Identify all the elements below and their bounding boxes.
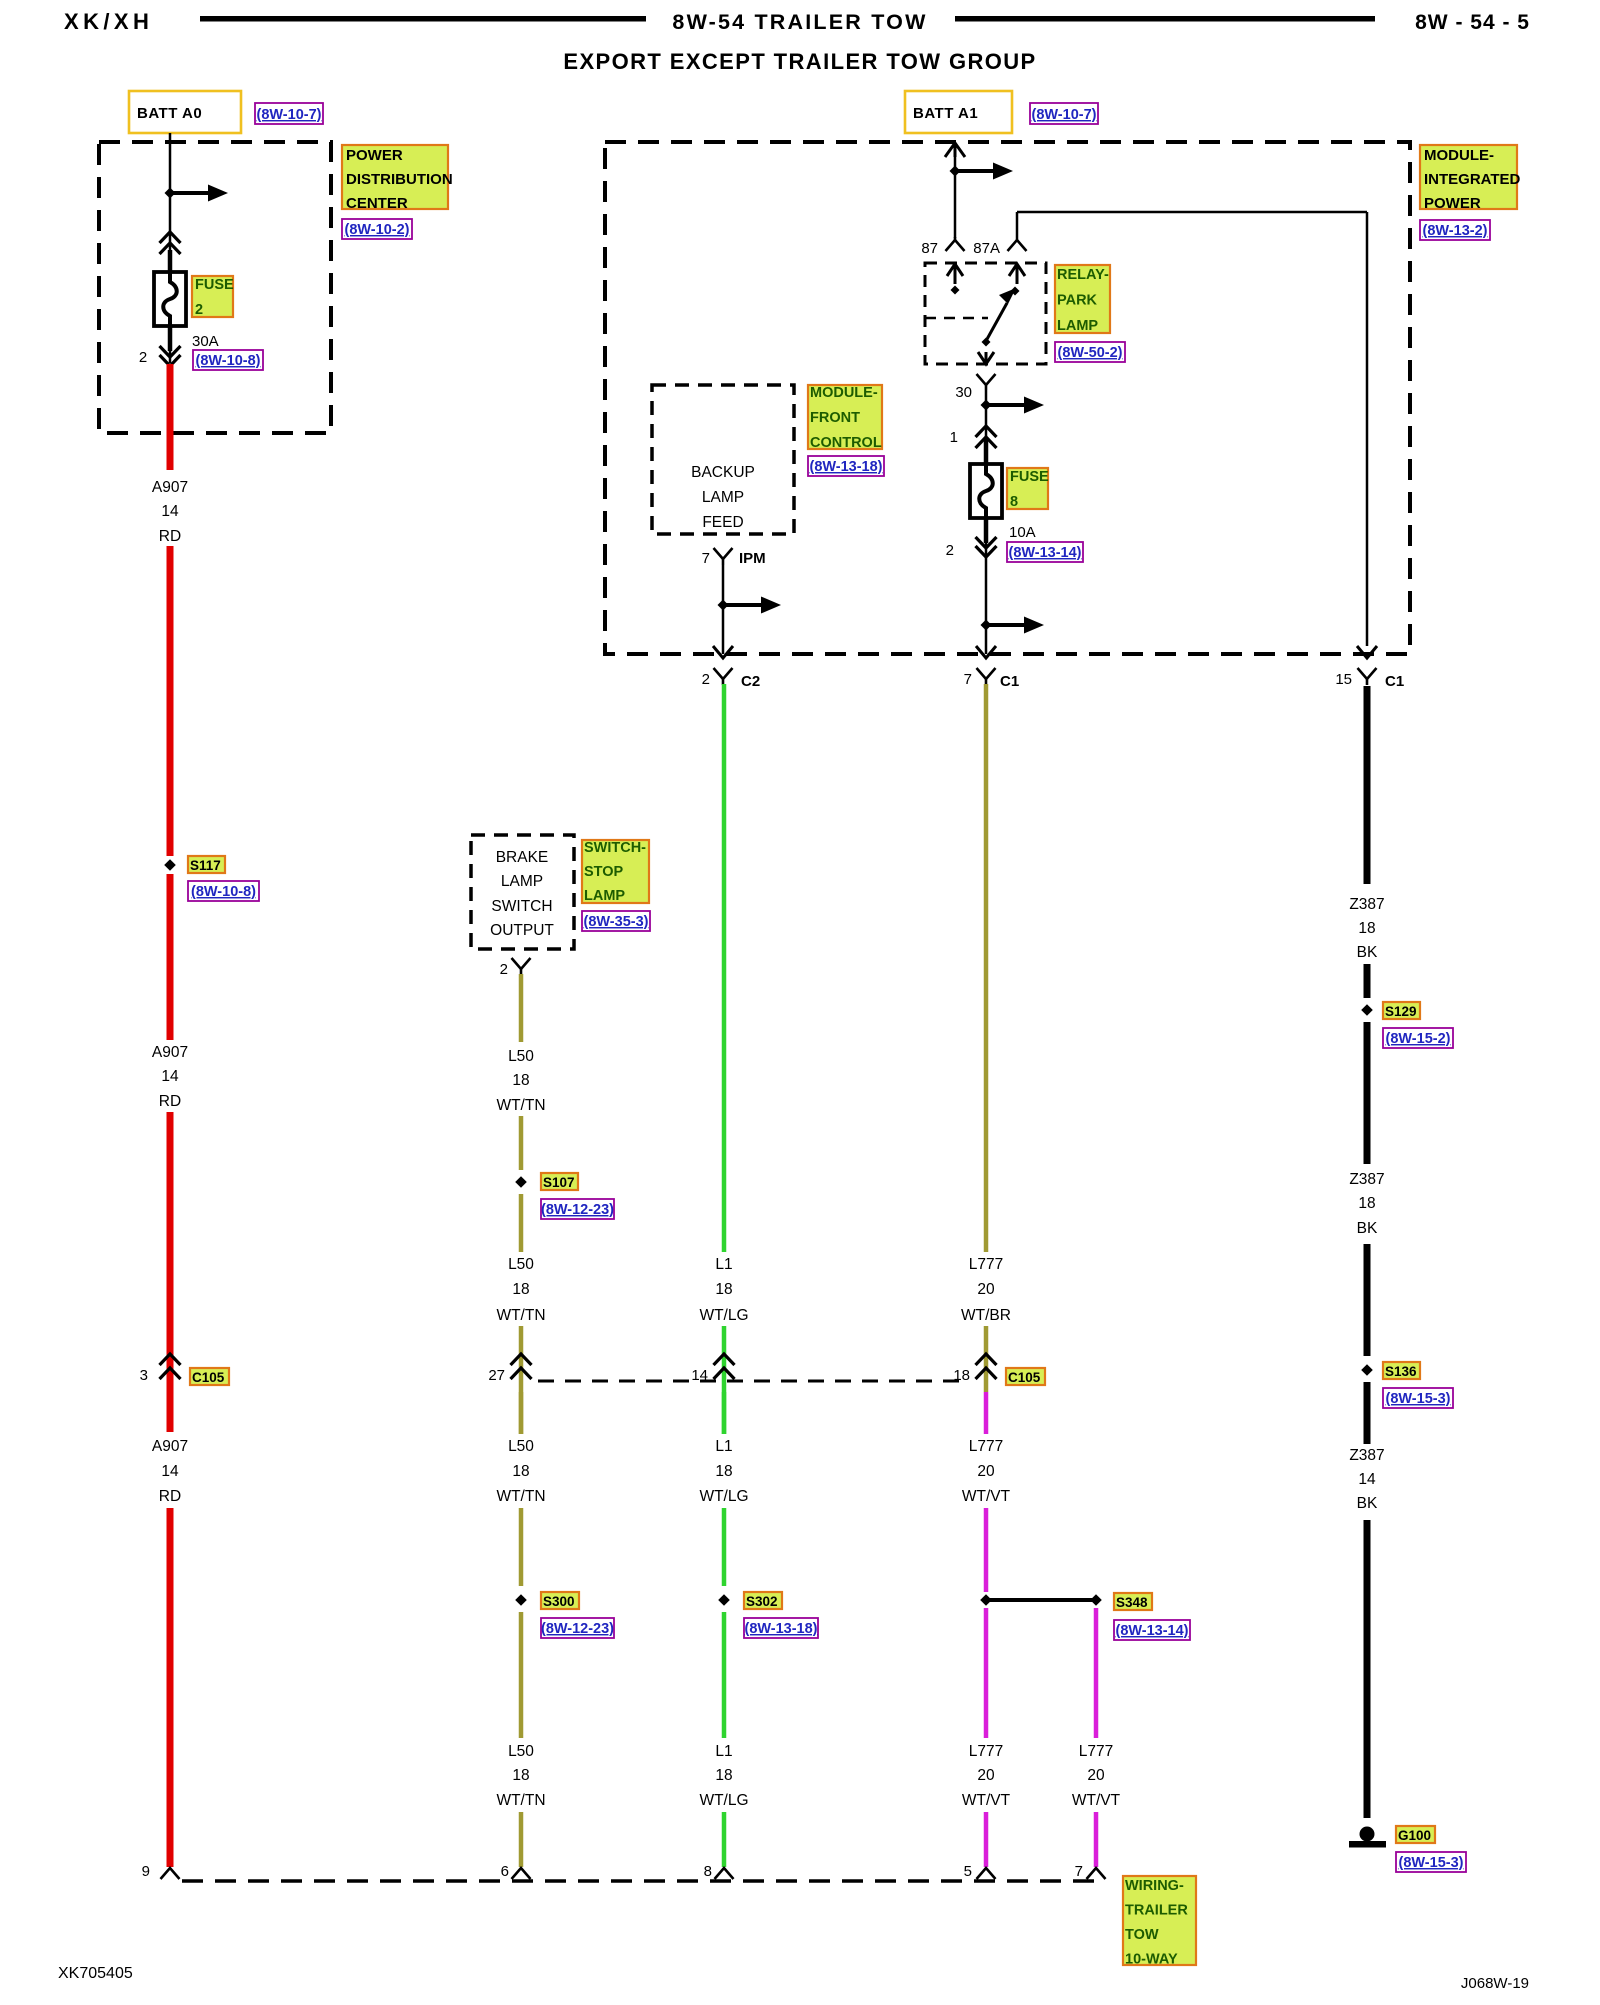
wire L777 segment 5 <box>984 1608 989 1738</box>
wire L777 WT/BR segment 1 <box>984 684 989 1252</box>
connector C105 chevrons on A907 <box>160 1354 181 1379</box>
svg-text:BATT A1: BATT A1 <box>913 105 978 122</box>
svg-text:C2: C2 <box>741 673 760 690</box>
label MODULE-INTEGRATED POWER <box>1420 145 1521 212</box>
value 30A <box>192 333 219 350</box>
pin 7 at trailer tow connector <box>1075 1863 1083 1880</box>
wire L50 segment 5 <box>519 1392 524 1434</box>
svg-text:7: 7 <box>964 671 972 688</box>
svg-text:WT/TN: WT/TN <box>496 1488 545 1505</box>
svg-text:18: 18 <box>1358 920 1375 937</box>
wire Z387 segment 5 <box>1364 1382 1371 1444</box>
connector fork pin 9 <box>161 1868 180 1879</box>
svg-text:L777: L777 <box>969 1256 1003 1273</box>
svg-text:L50: L50 <box>508 1743 534 1760</box>
connector fork at pin 30 <box>977 374 996 390</box>
wire L777 segment 4 <box>984 1508 989 1592</box>
wire label L50 18 WT/TN (4) <box>496 1743 545 1809</box>
label S107 <box>541 1173 578 1190</box>
svg-text:(8W-10-2): (8W-10-2) <box>345 222 410 238</box>
svg-text:WIRING-: WIRING- <box>1125 1878 1184 1894</box>
power distribution center dashed box <box>99 142 331 433</box>
svg-text:INTEGRATED: INTEGRATED <box>1424 171 1521 188</box>
arrow into module edge at C2-2 <box>713 646 733 658</box>
wire label L777 20 WT/VT branch <box>1072 1743 1121 1809</box>
svg-text:18: 18 <box>512 1463 529 1480</box>
connector chevrons above fuse 2 <box>160 232 181 254</box>
connector name C2 <box>741 673 760 690</box>
connector C105 chevrons on L1 <box>714 1354 735 1379</box>
svg-text:BK: BK <box>1357 944 1378 961</box>
svg-text:(8W-10-7): (8W-10-7) <box>1032 107 1097 123</box>
pin 2 at brake lamp switch <box>500 961 508 978</box>
svg-text:BATT A0: BATT A0 <box>137 105 202 122</box>
wire label Z387 18 BK (2) <box>1349 1171 1384 1237</box>
svg-text:LAMP: LAMP <box>501 873 543 890</box>
wire label Z387 18 BK (1) <box>1349 896 1384 961</box>
svg-text:L777: L777 <box>1079 1743 1113 1760</box>
link 8W-12-23 at S300 <box>541 1618 614 1638</box>
svg-text:S348: S348 <box>1116 1595 1148 1610</box>
wire relay to fuse 8 <box>985 390 988 464</box>
svg-text:(8W-13-2): (8W-13-2) <box>1423 223 1488 239</box>
label S136 <box>1383 1362 1420 1379</box>
battery feed BATT A1 box <box>905 91 1012 133</box>
svg-text:PARK: PARK <box>1057 293 1098 309</box>
svg-text:8: 8 <box>1010 494 1018 510</box>
pin 7 at IPM <box>702 550 710 567</box>
wire label L777 20 WT/BR <box>961 1256 1011 1324</box>
connector fork brake lamp pin 2 <box>512 958 531 975</box>
svg-text:(8W-13-14): (8W-13-14) <box>1115 1623 1188 1639</box>
svg-text:L1: L1 <box>715 1743 732 1760</box>
connector fork at pin 87 <box>946 237 965 251</box>
wire L1 WT/LG segment 1 <box>722 684 727 1252</box>
wire L777 segment 2 <box>984 1326 989 1392</box>
svg-text:BK: BK <box>1357 1220 1378 1237</box>
svg-text:L777: L777 <box>969 1438 1003 1455</box>
svg-text:10-WAY: 10-WAY <box>1125 1952 1178 1968</box>
label MODULE-FRONT CONTROL <box>808 385 882 451</box>
fuse F2 symbol <box>154 250 186 351</box>
wire label L1 18 WT/LG (2) <box>699 1438 748 1505</box>
svg-text:30: 30 <box>955 384 972 401</box>
connector name IPM <box>739 550 766 567</box>
wire L50 segment 7 <box>519 1612 524 1738</box>
wire Z387 segment 3 <box>1364 1022 1371 1164</box>
svg-text:FRONT: FRONT <box>810 410 860 426</box>
wire A907 RD segment 3 <box>167 874 174 1040</box>
wire Z387 segment 6 <box>1364 1520 1371 1818</box>
link 8W-13-14 at fuse 8 <box>1007 542 1083 562</box>
relay pin 30 arrow <box>978 352 994 364</box>
label FUSE 2 <box>192 276 234 318</box>
wire label L50 18 WT/TN (1) <box>496 1048 545 1114</box>
svg-text:C1: C1 <box>1000 673 1019 690</box>
svg-text:(8W-10-8): (8W-10-8) <box>191 884 256 900</box>
wire A907 RD segment 4 <box>167 1112 174 1432</box>
wire label L1 18 WT/LG (1) <box>699 1256 748 1324</box>
label FUSE 8 <box>1007 468 1049 510</box>
link 8W-15-3 at S136 <box>1383 1388 1453 1408</box>
svg-text:L1: L1 <box>715 1256 732 1273</box>
wire BATT A0 to fuse 2 <box>169 133 172 272</box>
relay coil dashed line <box>925 317 988 320</box>
svg-text:S117: S117 <box>190 858 221 873</box>
wire L777 WT/VT segment 3 <box>984 1392 989 1434</box>
svg-text:BACKUP: BACKUP <box>691 464 755 481</box>
connector fork C2 pin 2 <box>714 668 733 685</box>
svg-text:BRAKE: BRAKE <box>496 849 549 866</box>
link 8W-10-8 at PDC <box>193 350 263 370</box>
svg-text:RD: RD <box>159 528 181 545</box>
wire label L1 18 WT/LG (3) <box>699 1743 748 1809</box>
link 8W-13-14 at S348 <box>1114 1620 1190 1640</box>
label WIRING-TRAILER TOW 10-WAY <box>1123 1876 1196 1968</box>
link 8W-13-18 <box>808 456 884 476</box>
svg-text:20: 20 <box>977 1463 995 1480</box>
junction below BATT A1 with takeoff arrow <box>950 163 1014 180</box>
splice S129 <box>1361 1004 1373 1016</box>
svg-text:5: 5 <box>964 1863 972 1880</box>
connector C105 dashed line <box>538 1380 968 1383</box>
svg-text:7: 7 <box>1075 1863 1083 1880</box>
splice S302 <box>718 1594 730 1606</box>
wire L50 segment 4 <box>519 1326 524 1434</box>
svg-text:14: 14 <box>161 1068 179 1085</box>
ground G100 symbol <box>1349 1827 1386 1848</box>
svg-text:J068W-19: J068W-19 <box>1461 1975 1529 1992</box>
label SWITCH-STOP LAMP <box>582 840 649 904</box>
svg-text:A907: A907 <box>152 479 188 496</box>
svg-text:FUSE: FUSE <box>195 277 234 293</box>
svg-text:9: 9 <box>142 1863 150 1880</box>
wire L777 branch segment 1 <box>1094 1608 1099 1738</box>
wire L1 segment 3 <box>722 1392 727 1434</box>
label C105 right <box>1006 1368 1045 1385</box>
pin 9 at trailer tow connector <box>142 1863 150 1880</box>
connector name C1 <box>1000 673 1019 690</box>
svg-text:20: 20 <box>1087 1767 1105 1784</box>
wire label L777 20 WT/VT (1) <box>962 1438 1011 1505</box>
svg-text:14: 14 <box>161 1463 179 1480</box>
svg-text:18: 18 <box>512 1072 529 1089</box>
svg-text:30A: 30A <box>192 333 219 350</box>
svg-text:(8W-15-3): (8W-15-3) <box>1399 1855 1464 1871</box>
svg-text:TRAILER: TRAILER <box>1125 1903 1188 1919</box>
wire L1 segment 4 <box>722 1508 727 1586</box>
label G100 <box>1396 1826 1435 1843</box>
link 8W-13-18 at S302 <box>744 1618 818 1638</box>
connector C105 chevrons on L777 <box>976 1354 997 1379</box>
label POWER DISTRIBUTION CENTER <box>342 145 453 212</box>
svg-text:C1: C1 <box>1385 673 1404 690</box>
pin 18 at C105 <box>953 1367 970 1384</box>
svg-text:LAMP: LAMP <box>584 888 625 904</box>
svg-text:20: 20 <box>977 1281 995 1298</box>
svg-text:S300: S300 <box>543 1594 575 1609</box>
wire Z387 segment 2 <box>1364 964 1371 998</box>
svg-text:WT/TN: WT/TN <box>496 1307 545 1324</box>
pin 14 at C105 <box>691 1367 708 1384</box>
svg-text:FEED: FEED <box>702 514 743 531</box>
connector name C1 right <box>1385 673 1404 690</box>
label S348 <box>1114 1593 1152 1610</box>
link 8W-13-2 <box>1420 220 1490 240</box>
svg-text:18: 18 <box>512 1281 529 1298</box>
svg-text:POWER: POWER <box>346 147 403 164</box>
svg-text:2: 2 <box>139 349 147 366</box>
junction above C1 with takeoff arrow <box>981 617 1045 634</box>
battery feed BATT A0 box <box>129 91 241 133</box>
svg-text:(8W-10-7): (8W-10-7) <box>257 107 322 123</box>
pin 15 at C1 <box>1335 671 1352 688</box>
wire label A907 14 RD (2) <box>152 1044 188 1110</box>
svg-text:LAMP: LAMP <box>1057 318 1098 334</box>
svg-text:L1: L1 <box>715 1438 732 1455</box>
wire L1 segment 5 <box>722 1612 727 1738</box>
svg-text:8W-54 TRAILER TOW: 8W-54 TRAILER TOW <box>672 10 927 34</box>
page header label XK/XH <box>64 9 153 34</box>
svg-text:87A: 87A <box>973 240 1000 257</box>
link 8W-10-8 at S117 <box>188 881 259 901</box>
svg-text:FUSE: FUSE <box>1010 469 1049 485</box>
svg-text:MODULE-: MODULE- <box>810 385 878 401</box>
backup lamp feed dashed box <box>652 385 794 534</box>
junction in PDC with takeoff arrow <box>165 185 229 202</box>
splice S107 <box>515 1176 527 1188</box>
svg-text:STOP: STOP <box>584 864 624 880</box>
wire BATT A1 down to relay <box>954 155 957 238</box>
wire L777 segment 6 <box>984 1812 989 1867</box>
svg-text:(8W-13-14): (8W-13-14) <box>1008 545 1081 561</box>
trailer tow connector dashed line <box>182 1879 1100 1883</box>
connector fork pin 8 <box>715 1868 734 1879</box>
fuse F8 symbol <box>970 440 1002 543</box>
link 8W-12-23 at S107 <box>541 1199 614 1219</box>
svg-text:(8W-10-8): (8W-10-8) <box>196 353 261 369</box>
link 8W-15-3 at G100 <box>1396 1852 1466 1872</box>
connector chevrons above fuse 8 <box>976 426 997 448</box>
svg-text:(8W-12-23): (8W-12-23) <box>541 1202 614 1218</box>
svg-text:20: 20 <box>977 1767 995 1784</box>
svg-text:6: 6 <box>501 1863 509 1880</box>
header rule left <box>200 16 646 22</box>
svg-text:L50: L50 <box>508 1048 534 1065</box>
svg-text:MODULE-: MODULE- <box>1424 147 1494 164</box>
svg-text:POWER: POWER <box>1424 195 1481 212</box>
svg-text:Z387: Z387 <box>1349 896 1384 913</box>
svg-text:LAMP: LAMP <box>702 489 744 506</box>
wire label L50 18 WT/TN (3) <box>496 1438 545 1505</box>
label S117 <box>188 856 225 873</box>
svg-text:8: 8 <box>704 1863 712 1880</box>
brake lamp switch output dashed box <box>471 835 574 949</box>
svg-text:WT/VT: WT/VT <box>1072 1792 1121 1809</box>
connector fork pin 6 <box>512 1868 531 1879</box>
connector fork IPM pin 7 <box>714 548 733 565</box>
svg-text:18: 18 <box>715 1281 732 1298</box>
relay park lamp dashed box <box>925 263 1046 364</box>
wire Z387 segment 4 <box>1364 1244 1371 1356</box>
splice S117 <box>164 859 176 871</box>
pin 7 at C1 <box>964 671 972 688</box>
svg-text:OUTPUT: OUTPUT <box>490 922 554 939</box>
pin 8 at trailer tow connector <box>704 1863 712 1880</box>
svg-text:2: 2 <box>195 302 203 318</box>
svg-text:TOW: TOW <box>1125 1927 1159 1943</box>
svg-text:(8W-15-3): (8W-15-3) <box>1386 1391 1451 1407</box>
svg-text:L50: L50 <box>508 1256 534 1273</box>
svg-text:(8W-12-23): (8W-12-23) <box>541 1621 614 1637</box>
svg-text:L777: L777 <box>969 1743 1003 1760</box>
pin 5 at trailer tow connector <box>964 1863 972 1880</box>
wire L50 segment 8 <box>519 1812 524 1867</box>
value 10A <box>1009 524 1036 541</box>
wire label Z387 14 BK <box>1349 1447 1384 1512</box>
label C105 left <box>190 1368 229 1385</box>
svg-text:RD: RD <box>159 1093 181 1110</box>
pin 2 of fuse 8 <box>946 542 954 559</box>
wire label L50 18 WT/TN (2) <box>496 1256 545 1324</box>
svg-text:(8W-35-3): (8W-35-3) <box>584 914 649 930</box>
splice S136 <box>1361 1364 1373 1376</box>
svg-text:1: 1 <box>950 429 958 446</box>
svg-text:Z387: Z387 <box>1349 1171 1384 1188</box>
svg-text:IPM: IPM <box>739 550 766 567</box>
arrow into module edge at C1-15 <box>1357 646 1377 658</box>
footer sheet code XK705405 <box>58 1965 133 1982</box>
svg-text:7: 7 <box>702 550 710 567</box>
svg-text:18: 18 <box>715 1767 732 1784</box>
pin 87 label <box>921 240 938 257</box>
svg-text:S107: S107 <box>543 1175 575 1190</box>
wire A907 RD segment 5 <box>167 1392 174 1432</box>
svg-text:SWITCH: SWITCH <box>491 898 552 915</box>
svg-text:14: 14 <box>161 503 179 520</box>
connector chevrons below fuse 2 <box>160 326 181 366</box>
svg-text:C105: C105 <box>192 1370 225 1385</box>
page number 8W - 54 - 5 <box>1415 11 1530 34</box>
link 8W-10-7 right <box>1030 103 1098 124</box>
pin 30 label <box>955 384 972 401</box>
svg-text:WT/LG: WT/LG <box>699 1307 748 1324</box>
text BRAKE LAMP SWITCH OUTPUT <box>490 849 554 939</box>
svg-text:87: 87 <box>921 240 938 257</box>
wire below fuse 8 <box>985 518 988 654</box>
svg-text:WT/LG: WT/LG <box>699 1792 748 1809</box>
label RELAY-PARK LAMP <box>1055 265 1110 334</box>
wire Z387 BK segment 1 <box>1364 686 1371 884</box>
svg-text:RD: RD <box>159 1488 181 1505</box>
wire L1 segment 2 <box>722 1326 727 1434</box>
svg-text:8W - 54 - 5: 8W - 54 - 5 <box>1415 11 1530 34</box>
svg-text:DISTRIBUTION: DISTRIBUTION <box>346 171 453 188</box>
svg-text:CONTROL: CONTROL <box>810 435 882 451</box>
svg-text:CENTER: CENTER <box>346 195 408 212</box>
connector fork pin 7 bottom <box>1087 1868 1106 1879</box>
connector C105 chevrons on L50 <box>511 1354 532 1379</box>
svg-text:14: 14 <box>1358 1471 1376 1488</box>
arrow into module edge at C1-7 <box>976 646 996 658</box>
text BACKUP LAMP FEED <box>691 464 755 531</box>
svg-text:A907: A907 <box>152 1044 188 1061</box>
pin 2 of fuse 2 <box>139 349 147 366</box>
svg-text:S302: S302 <box>746 1594 778 1609</box>
label S129 <box>1383 1002 1420 1019</box>
splice S300 <box>515 1594 527 1606</box>
module-integrated power dashed box <box>605 142 1410 654</box>
link 8W-10-7 left <box>255 103 323 124</box>
wire IPM to C2 <box>722 565 725 654</box>
svg-text:WT/LG: WT/LG <box>699 1488 748 1505</box>
svg-text:S136: S136 <box>1385 1364 1417 1379</box>
svg-text:XK/XH: XK/XH <box>64 9 153 34</box>
wire L777 branch segment 2 <box>1094 1812 1099 1867</box>
connector fork pin 5 <box>977 1868 996 1879</box>
wire 87A up and across to C1-15 <box>1017 212 1367 646</box>
svg-text:18: 18 <box>715 1463 732 1480</box>
wire label A907 14 RD (3) <box>152 1438 188 1505</box>
svg-text:EXPORT EXCEPT TRAILER TOW GROU: EXPORT EXCEPT TRAILER TOW GROUP <box>563 49 1036 74</box>
wire A907 RD segment 1 <box>167 364 174 470</box>
pin 87A label <box>973 240 1000 257</box>
relay pin 87 arrow <box>947 264 963 295</box>
svg-text:2: 2 <box>702 671 710 688</box>
svg-text:Z387: Z387 <box>1349 1447 1384 1464</box>
wire L1 segment 6 <box>722 1812 727 1867</box>
label S300 <box>541 1592 579 1609</box>
connector chevrons below fuse 8 <box>976 537 997 557</box>
pin 1 of fuse 8 <box>950 429 958 446</box>
wire up-arrow into BATT A1 <box>945 143 965 157</box>
svg-text:18: 18 <box>512 1767 529 1784</box>
wire A907 RD segment 6 <box>167 1508 174 1867</box>
svg-text:(8W-15-2): (8W-15-2) <box>1386 1031 1451 1047</box>
svg-text:WT/TN: WT/TN <box>496 1097 545 1114</box>
connector fork C1 pin 7 <box>977 668 996 685</box>
connector fork at pin 87A <box>1008 240 1027 251</box>
svg-text:(8W-50-2): (8W-50-2) <box>1058 345 1123 361</box>
svg-text:S129: S129 <box>1385 1004 1417 1019</box>
wire L50 segment 2 <box>519 1116 524 1170</box>
pin 27 at C105 <box>488 1367 505 1384</box>
junction below pin 30 with takeoff arrow <box>981 397 1045 414</box>
svg-text:RELAY-: RELAY- <box>1057 267 1109 283</box>
wire L50 segment 6 <box>519 1508 524 1586</box>
link 8W-10-2 <box>342 219 412 239</box>
svg-text:SWITCH-: SWITCH- <box>584 840 646 856</box>
wire A907 RD segment 2 <box>167 546 174 856</box>
svg-text:2: 2 <box>500 961 508 978</box>
wire L50 segment 3 <box>519 1194 524 1252</box>
splice S348 bridge <box>980 1594 1102 1606</box>
subtitle EXPORT EXCEPT TRAILER TOW GROUP <box>563 49 1036 74</box>
label S302 <box>744 1592 782 1609</box>
svg-text:2: 2 <box>946 542 954 559</box>
svg-text:15: 15 <box>1335 671 1352 688</box>
svg-text:(8W-13-18): (8W-13-18) <box>744 1621 817 1637</box>
svg-text:(8W-13-18): (8W-13-18) <box>809 459 882 475</box>
link 8W-15-2 <box>1383 1028 1453 1048</box>
wire L50 WT/TN segment 1 <box>519 974 524 1042</box>
page title 8W-54 TRAILER TOW <box>672 10 927 34</box>
pin 6 at trailer tow connector <box>501 1863 509 1880</box>
svg-text:L50: L50 <box>508 1438 534 1455</box>
svg-text:XK705405: XK705405 <box>58 1965 133 1982</box>
wire label A907 14 RD (1) <box>152 479 188 545</box>
svg-text:10A: 10A <box>1009 524 1036 541</box>
